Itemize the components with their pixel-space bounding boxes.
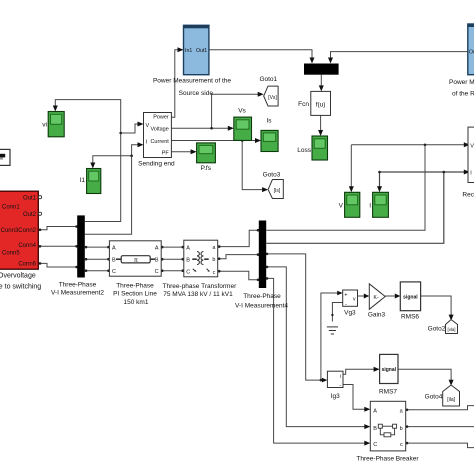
wire PI line to transformer A B C <box>161 247 184 271</box>
wire Fcn to Loss scope <box>320 115 322 131</box>
block RMS6 <box>400 282 420 321</box>
wire breaker b output <box>406 426 474 428</box>
svg-text:f(u): f(u) <box>316 102 326 109</box>
wire red block Conn3 to bar1 A <box>40 227 77 230</box>
svg-text:b: b <box>400 426 403 432</box>
block Fcn f(u) <box>298 91 330 115</box>
block Three-phase Transformer <box>163 240 238 298</box>
svg-text:C: C <box>155 269 159 275</box>
wire mux to Fcn <box>320 75 322 87</box>
svg-text:150 km1: 150 km1 <box>124 299 149 306</box>
subsystem Receiving end (right edge) <box>462 127 474 198</box>
svg-text:Fcn: Fcn <box>298 101 309 108</box>
svg-text:of the Receiving side: of the Receiving side <box>452 91 474 98</box>
svg-text:Gain3: Gain3 <box>368 312 386 319</box>
arrows <box>53 47 470 445</box>
svg-text:c: c <box>400 442 403 448</box>
wire RMS7 to Goto4 <box>398 369 451 380</box>
scope Vs <box>234 108 252 141</box>
svg-text:Conn5: Conn5 <box>2 251 20 257</box>
goto tag Goto1 [Vs] <box>259 76 278 106</box>
wire Current output to Is scope and Goto3 <box>171 141 263 190</box>
wire PF output to P.fs scope <box>171 151 192 153</box>
svg-text:I1: I1 <box>80 177 86 184</box>
svg-text:Conn1: Conn1 <box>2 205 20 211</box>
block RMS7 <box>379 354 398 395</box>
svg-text:C: C <box>373 442 377 448</box>
scope Is <box>261 118 278 152</box>
svg-text:Three-Phase Breaker: Three-Phase Breaker <box>356 456 419 463</box>
block Three-Phase Breaker <box>356 401 419 462</box>
svg-text:signal: signal <box>403 294 418 300</box>
svg-text:Loss: Loss <box>297 147 311 154</box>
svg-text:V-I Measurement4: V-I Measurement4 <box>235 303 288 310</box>
svg-text:+: + <box>344 293 347 299</box>
svg-text:Current: Current <box>150 139 169 145</box>
step source block at left edge <box>0 149 10 165</box>
svg-text:75 MVA 138 kV / 11 kV1: 75 MVA 138 kV / 11 kV1 <box>163 291 233 298</box>
svg-text:C: C <box>112 269 116 275</box>
svg-text:Out1: Out1 <box>23 196 37 202</box>
scope V <box>339 192 360 217</box>
wire bar2 C phase to breaker C <box>266 278 365 443</box>
subsystem Sending end <box>138 113 175 168</box>
scope I <box>369 192 388 217</box>
mux (black bar) <box>304 64 339 75</box>
wire vi tap + Vabc riser from bar1 to sending end V <box>55 100 140 222</box>
wire Gain3 to RMS6 <box>385 295 395 297</box>
wire bar1 to PI line A B C <box>85 247 110 271</box>
subsystem Power Measurement of the Receiving side (blue, right edge) <box>449 24 474 98</box>
svg-text:Voltage: Voltage <box>150 127 168 133</box>
bar block Three-Phase V-I Measurement4 <box>235 221 288 310</box>
wire breaker c output <box>406 443 474 448</box>
svg-text:V-I Measurement2: V-I Measurement2 <box>51 290 104 297</box>
scope I1 <box>80 169 101 194</box>
svg-text:In1: In1 <box>185 48 192 54</box>
svg-text:Three-Phase: Three-Phase <box>116 283 154 290</box>
svg-text:RMS6: RMS6 <box>401 314 419 321</box>
svg-text:Goto4: Goto4 <box>425 394 443 401</box>
port dots <box>39 225 409 444</box>
svg-text:A: A <box>186 246 190 252</box>
svg-text:[Is]: [Is] <box>274 188 281 194</box>
svg-text:[vla]: [vla] <box>447 327 455 332</box>
svg-text:vi: vi <box>42 122 47 129</box>
svg-text:[Vs]: [Vs] <box>268 95 277 101</box>
svg-text:Conn4: Conn4 <box>18 243 36 249</box>
svg-text:π: π <box>134 258 138 264</box>
subsystem Overvoltage due to switching (red) <box>0 191 42 290</box>
svg-text:Power Measurement: Power Measurement <box>449 79 474 86</box>
wire bar2 Iabc to receiving end I and scope I <box>266 172 465 243</box>
svg-text:Overvoltage: Overvoltage <box>0 273 36 280</box>
svg-text:K-: K- <box>374 295 379 301</box>
svg-text:Source side: Source side <box>179 90 214 97</box>
subsystem Power Measurement of the Source side (blue) <box>153 25 231 97</box>
svg-text:[ila]: [ila] <box>447 397 455 403</box>
wire bar2 Vabc to receiving end V and scope V <box>266 145 465 230</box>
wire Ig3 through to breaker A <box>343 385 366 410</box>
wire Vg3 + input riser <box>321 293 338 380</box>
svg-text:B: B <box>155 258 159 264</box>
scope vi <box>42 112 64 137</box>
svg-text:b: b <box>212 257 215 263</box>
current measurement block Ig3 <box>327 371 343 400</box>
svg-text:Conn3Conn2: Conn3Conn2 <box>1 228 37 234</box>
goto tag Goto4 [ila] <box>425 385 460 406</box>
svg-text:V: V <box>146 123 150 129</box>
svg-text:Goto3: Goto3 <box>263 172 281 179</box>
wire transformer a b c to bar2 <box>220 230 259 280</box>
svg-text:Out2: Out2 <box>23 212 37 218</box>
svg-text:Out1: Out1 <box>196 48 207 54</box>
wire red block Conn6 to bar1 C <box>40 263 77 267</box>
goto tag Goto2 [vla] <box>428 320 458 334</box>
svg-text:Three-Phase: Three-Phase <box>243 293 281 300</box>
wire blue1 Out1 to mux input 1 <box>209 50 312 59</box>
svg-text:c: c <box>213 270 216 276</box>
svg-text:B: B <box>373 426 377 432</box>
svg-text:V: V <box>470 143 474 149</box>
svg-text:Power Measurement of the: Power Measurement of the <box>153 78 231 85</box>
wire Ig3 i output to RMS7 <box>343 369 375 374</box>
wire Iabc riser from bar1 to sending end I + I1 tap <box>85 145 140 235</box>
svg-text:RMS7: RMS7 <box>379 389 397 396</box>
svg-text:Is: Is <box>266 118 272 125</box>
svg-text:i: i <box>340 374 341 380</box>
wire bar2 A phase down to Ig3 <box>266 254 322 380</box>
svg-text:Power: Power <box>153 115 169 121</box>
wire sending end Power to blue subsystem In1 <box>171 50 179 118</box>
svg-text:Out1: Out1 <box>469 50 474 56</box>
svg-text:Conn6: Conn6 <box>18 262 36 268</box>
svg-text:-: - <box>345 302 347 308</box>
svg-text:Goto2: Goto2 <box>428 326 446 333</box>
svg-text:A: A <box>373 408 377 414</box>
wire Voltage output to Vs scope and Goto1 <box>171 94 259 128</box>
wire Vg3 - input to ground <box>332 303 342 322</box>
svg-text:B: B <box>186 258 190 264</box>
wire RMS6 to Goto2 <box>421 296 452 316</box>
block Three-Phase PI Section Line <box>109 241 161 306</box>
wire blue2 output to mux input 2 <box>331 52 468 59</box>
svg-text:Three-phase Transformer: Three-phase Transformer <box>163 283 238 290</box>
svg-text:B: B <box>112 258 116 264</box>
bar block Three-Phase V-I Measurement2 <box>51 215 104 296</box>
svg-text:Vg3: Vg3 <box>344 310 356 317</box>
svg-text:Three-Phase: Three-Phase <box>59 282 97 289</box>
scope Loss <box>297 136 327 160</box>
svg-text:A: A <box>112 246 116 252</box>
svg-text:signal: signal <box>382 367 397 373</box>
goto tag Goto3 [Is] <box>263 172 284 199</box>
svg-text:Receiving end: Receiving end <box>462 192 474 199</box>
measurement block Vg3 <box>343 290 358 317</box>
ground symbol <box>327 327 338 334</box>
wire red block Conn4 to bar1 B <box>40 245 77 247</box>
svg-text:due to switching: due to switching <box>0 284 41 291</box>
svg-text:PI Section Line: PI Section Line <box>113 291 157 298</box>
svg-text:V: V <box>339 203 344 210</box>
wire Vg3 to Gain3 <box>358 295 365 297</box>
svg-text:Sending end: Sending end <box>138 161 175 168</box>
scope P.fs <box>197 143 216 172</box>
svg-text:I: I <box>369 203 371 210</box>
svg-text:C: C <box>186 270 190 276</box>
wire bar2 B phase to breaker B <box>266 267 365 427</box>
svg-text:Vs: Vs <box>238 108 246 115</box>
svg-text:P.fs: P.fs <box>201 165 212 172</box>
svg-text:A: A <box>155 246 159 252</box>
svg-text:Ig3: Ig3 <box>331 393 340 400</box>
svg-text:Goto1: Goto1 <box>259 76 277 83</box>
gain Gain3 <box>368 284 386 319</box>
svg-text:PF: PF <box>162 150 170 156</box>
wire breaker a output <box>406 406 474 410</box>
